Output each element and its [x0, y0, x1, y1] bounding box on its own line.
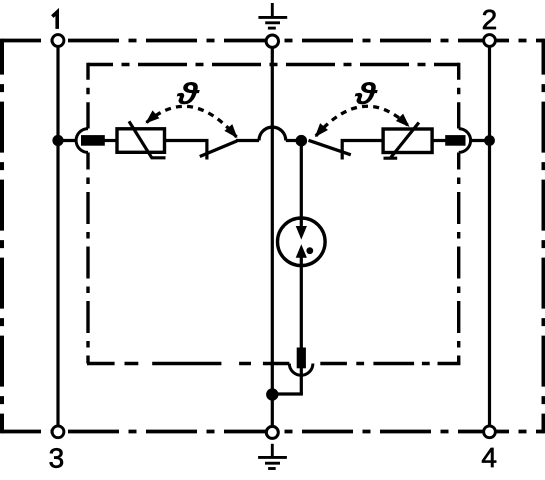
GDT upper arrowhead (down)	[296, 226, 307, 240]
thermal disconnector blade left	[200, 141, 237, 157]
svg-text:2: 2	[482, 4, 498, 35]
outer enclosure border (dash-dot) top	[2, 39, 544, 43]
GDT upper arrow shaft	[300, 218, 303, 228]
outer enclosure border left	[0, 39, 4, 434]
gas discharge tube branch shaft upper	[300, 141, 303, 229]
junction dot right	[484, 135, 495, 146]
varistor RV2 body	[383, 129, 432, 153]
thermal disconnector blade right	[309, 140, 351, 155]
wire: hop to centre junction	[286, 139, 302, 142]
gas discharge tube branch shaft lower	[300, 256, 303, 394]
pin contact left (filled)	[81, 135, 105, 146]
socket arc right (plug-in contact)	[459, 129, 471, 153]
varistor RV2 diagonal stroke	[384, 123, 419, 159]
crossover hop over centre line	[259, 127, 286, 140]
svg-text:ϑ: ϑ	[354, 76, 378, 111]
junction dot bottom earth	[266, 388, 278, 400]
wire: varistor RV2 to right pin	[432, 139, 446, 142]
junction dot left	[52, 135, 63, 146]
outer enclosure border bottom	[2, 430, 544, 434]
varistor RV1 body	[117, 129, 165, 153]
terminal 3 circle	[52, 426, 64, 438]
socket arc bottom (plug-in contact)	[289, 364, 313, 376]
earth symbol bottom	[258, 444, 287, 469]
terminal label 1	[52, 12, 57, 29]
outer enclosure border right	[542, 39, 545, 434]
wire: right vertical line terminal 2 to terminal 4	[488, 41, 491, 432]
wire: right socket to right junction	[471, 139, 490, 142]
wire: left junction to left socket	[58, 139, 77, 142]
gas discharge tube F1 circle	[278, 218, 326, 266]
wire: left vertical line terminal 1 to terminal 3	[56, 41, 59, 432]
thermal trip dashed arc right	[316, 106, 409, 136]
inner module border left (gap at socket)	[86, 63, 89, 364]
thermal trip dashed arc left	[147, 106, 237, 137]
terminal 4 circle	[484, 426, 496, 438]
pin contact bottom (filled)	[297, 348, 306, 369]
svg-text:4: 4	[481, 442, 497, 473]
inner module border bottom (gap at socket)	[87, 362, 460, 365]
inner module border right (gap at socket)	[457, 63, 460, 364]
inner module border (dash-dot) top	[88, 63, 459, 66]
earth symbol top	[258, 3, 287, 28]
svg-text:ϑ: ϑ	[176, 76, 200, 111]
earth terminal circle top	[266, 35, 278, 47]
wire: right disconnector contact to varistor RV2	[342, 141, 383, 160]
earth terminal circle bottom	[266, 426, 278, 438]
wire: GDT branch elbow to bottom junction	[272, 392, 303, 395]
wire: centre earth line top terminal to bottom junction	[271, 41, 274, 432]
terminal 1 circle	[52, 35, 64, 47]
wire: left pin to varistor	[104, 139, 117, 142]
GDT lower arrowhead (up)	[296, 244, 307, 258]
varistor RV1 diagonal stroke	[129, 121, 166, 158]
junction dot centre (GDT tap)	[296, 135, 308, 147]
terminal 2 circle	[484, 35, 496, 47]
socket arc left (plug-in contact)	[76, 129, 88, 153]
GDT internal dot	[306, 247, 313, 254]
pin contact right (filled)	[445, 135, 465, 146]
wire: blade to crossover hop	[236, 139, 259, 142]
svg-text:3: 3	[49, 443, 65, 474]
wire: varistor RV1 to left disconnector contact	[165, 141, 207, 160]
